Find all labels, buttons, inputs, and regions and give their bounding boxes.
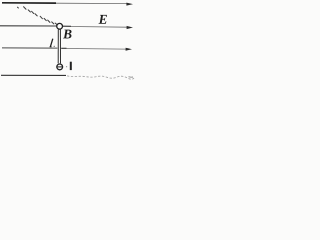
field line 1 (top) left dark segment: [2, 2, 56, 4]
field line 3 left segment: [2, 47, 57, 49]
rod (double line) right edge: [59, 29, 61, 63]
field line 1 arrowhead: [126, 3, 133, 6]
field line 3 right dark stub at rod: [61, 47, 66, 49]
bar through ball: [57, 66, 62, 68]
hatching on fixed support (ticks along diagonal): [18, 7, 57, 25]
pivot hinge circle B: [57, 23, 63, 29]
field line 3 arrowhead: [126, 48, 132, 51]
ground line faint dashed continuation: [67, 76, 134, 79]
label E: [99, 15, 107, 24]
dot after l: [54, 46, 55, 47]
faint dot left of label: [66, 66, 67, 67]
label l (rod length): [50, 39, 52, 47]
ground line (bottom) solid segment: [1, 74, 66, 76]
field line 2 right dark stub at pivot: [63, 25, 71, 27]
field line 2 left segment: [0, 25, 57, 27]
charged ball A at rod end (circle with horizontal bar): [57, 64, 63, 70]
background: [0, 0, 136, 81]
field line 2 right faint segment: [71, 26, 127, 29]
dark end mark of dashed ground line: [129, 76, 134, 78]
rod (double line) left edge: [57, 29, 59, 63]
label bar (ball label): [70, 62, 72, 70]
field line 1 right faint segment: [56, 2, 127, 4]
field line 2 arrowhead: [127, 26, 133, 29]
label B: [63, 30, 72, 39]
field line 3 right faint segment: [67, 48, 127, 51]
